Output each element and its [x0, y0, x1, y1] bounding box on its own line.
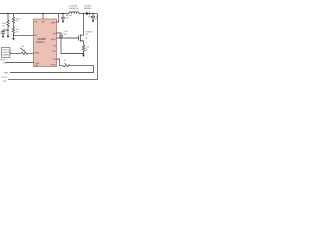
svg-text:0.1µF: 0.1µF [64, 31, 68, 33]
svg-text:COUT: COUT [88, 17, 93, 19]
svg-text:VOUT: VOUT [2, 77, 8, 79]
svg-text:Si2318DS: Si2318DS [85, 31, 92, 33]
svg-text:PWM: PWM [35, 53, 40, 55]
svg-text:4A: 4A [85, 37, 88, 40]
svg-text:X7R: X7R [66, 17, 70, 19]
svg-text:L1 10µH 3A: L1 10µH 3A [69, 4, 78, 7]
svg-text:SHDN: SHDN [1, 59, 6, 61]
svg-text:CTRL: CTRL [2, 62, 7, 64]
svg-text:CTRL: CTRL [35, 63, 40, 65]
svg-text:2k: 2k [64, 60, 66, 62]
svg-text:1%: 1% [16, 21, 19, 23]
svg-text:1%: 1% [16, 31, 19, 33]
svg-text:X5R: X5R [64, 34, 68, 36]
svg-text:LT3478-1: LT3478-1 [36, 41, 45, 44]
svg-text:1%: 1% [86, 49, 89, 51]
svg-text:4.7µF: 4.7µF [94, 16, 98, 18]
svg-text:D1 PMEG: D1 PMEG [84, 5, 92, 7]
svg-text:25V: 25V [3, 81, 7, 83]
svg-text:20V: 20V [85, 34, 89, 36]
svg-text:SYNC: SYNC [51, 64, 57, 66]
svg-text:FBH: FBH [4, 73, 8, 75]
svg-text:GATE: GATE [51, 38, 57, 41]
svg-text:0.1Ω: 0.1Ω [86, 47, 90, 49]
svg-text:10k: 10k [64, 63, 67, 65]
svg-text:1µF: 1µF [0, 32, 3, 34]
svg-text:DIMMING: DIMMING [2, 54, 10, 56]
svg-text:1%: 1% [2, 25, 5, 27]
svg-text:XAL5030-103: XAL5030-103 [69, 7, 79, 10]
svg-text:MBRS360: MBRS360 [84, 8, 91, 10]
svg-text:VREF: VREF [51, 22, 57, 24]
svg-text:10k: 10k [22, 46, 25, 48]
svg-text:SW: SW [35, 22, 38, 24]
svg-text:LT3478: LT3478 [38, 38, 47, 41]
